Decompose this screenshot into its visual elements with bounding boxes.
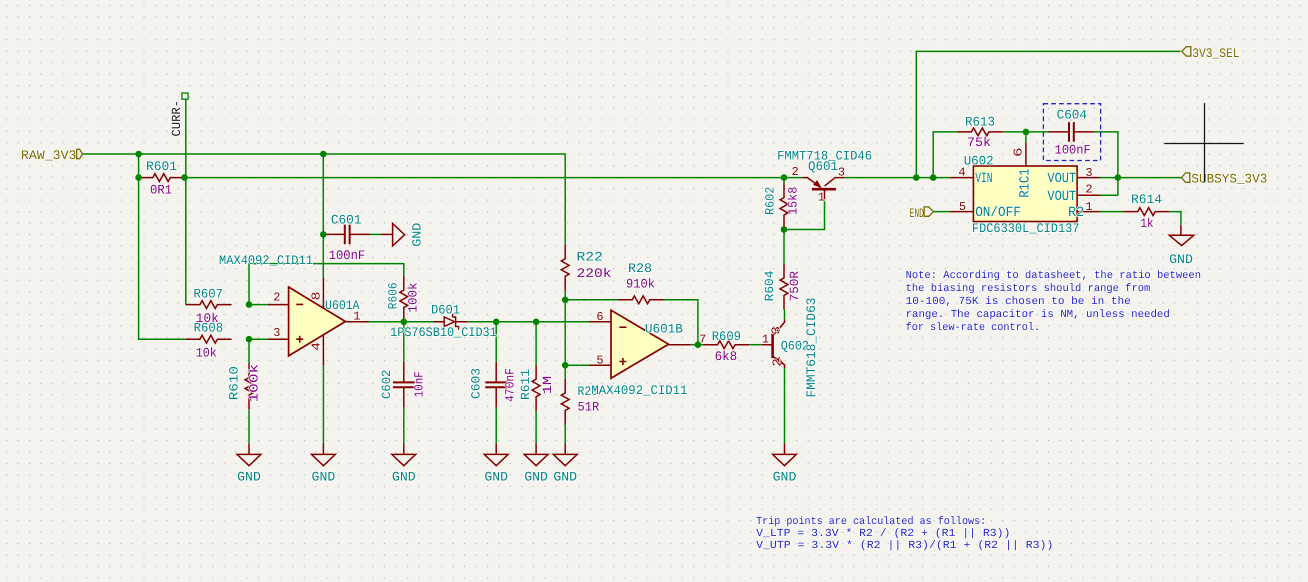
svg-text:V_LTP = 3.3V * R2 / (R2 + (R1: V_LTP = 3.3V * R2 / (R2 + (R1 || R3)): [756, 528, 1010, 540]
wire R611 bottom: [535, 411, 537, 443]
wire END to ON/OFF: [934, 211, 951, 213]
wire pin6 upper: [1025, 132, 1027, 143]
junction: [930, 174, 937, 181]
ground under R610: [248, 443, 250, 454]
svg-text:R611: R611: [519, 369, 533, 400]
wire pin3 link U602: [1100, 177, 1118, 179]
wire R602 stub: [783, 178, 785, 184]
svg-text:R614: R614: [1131, 192, 1162, 207]
wire diode to pin6: [466, 321, 589, 323]
wire R610 bottom: [248, 409, 250, 443]
wire feedback A to R606: [249, 264, 404, 305]
svg-text:R604: R604: [763, 271, 777, 302]
wire C603 top: [495, 322, 497, 362]
wire R614 to GND: [1169, 212, 1181, 225]
svg-text:V_UTP = 3.3V * (R2 || R3)/(R1: V_UTP = 3.3V * (R2 || R3)/(R1 + (R2 || R…: [756, 540, 1053, 552]
svg-text:5: 5: [596, 354, 603, 368]
svg-text:END: END: [910, 206, 925, 221]
svg-text:3: 3: [1085, 166, 1092, 180]
svg-text:10nF: 10nF: [413, 371, 427, 397]
transistor Q602: [771, 334, 774, 359]
svg-text:R28: R28: [628, 261, 652, 276]
diode D601: [433, 321, 467, 323]
wire left branch to R608: [139, 154, 186, 339]
resistor R609: [704, 341, 750, 349]
wire Q602 collector to R604: [784, 310, 786, 320]
svg-text:C602: C602: [380, 370, 394, 399]
svg-text:VOUT: VOUT: [1047, 189, 1076, 205]
wire R613 riser: [933, 132, 957, 178]
svg-text:0R1: 0R1: [150, 182, 172, 197]
resistor R601: [139, 174, 185, 182]
wire pin4 to GND: [322, 366, 324, 443]
svg-text:1PS76SB10_CID31: 1PS76SB10_CID31: [390, 325, 497, 340]
hierarchical label SUBSYS_3V3: [1181, 173, 1189, 182]
resistor R606: [400, 276, 408, 322]
junction: [562, 297, 569, 304]
svg-text:6k8: 6k8: [715, 349, 738, 364]
svg-text:10-100, 75K is chosen to be in: 10-100, 75K is chosen to be in the: [906, 296, 1131, 308]
svg-text:5: 5: [959, 200, 966, 214]
wire pin3 link: [249, 338, 268, 340]
svg-text:R22: R22: [577, 250, 603, 265]
svg-text:100k: 100k: [248, 364, 262, 403]
wire R604 to node: [783, 230, 785, 264]
svg-text:GND: GND: [410, 223, 424, 247]
wire C603 bottom: [495, 408, 497, 444]
wire C602 top: [403, 322, 405, 362]
ground under U601A pin4: [322, 443, 324, 454]
svg-text:GND: GND: [773, 469, 797, 484]
svg-text:100nF: 100nF: [329, 248, 366, 263]
ground under C602: [403, 443, 405, 454]
wire Q601 base link: [784, 200, 825, 230]
junction: [695, 341, 702, 348]
svg-text:SUBSYS_3V3: SUBSYS_3V3: [1191, 171, 1267, 186]
svg-text:Note: According to datasheet,: Note: According to datasheet, the ratio …: [906, 270, 1201, 282]
svg-text:GND: GND: [553, 469, 577, 484]
svg-text:1: 1: [818, 191, 825, 205]
wire R28 left: [565, 299, 618, 301]
wire R22 bottom to R29: [564, 291, 566, 379]
svg-text:100nF: 100nF: [1055, 143, 1091, 158]
junction: [533, 319, 540, 326]
svg-text:1M: 1M: [541, 376, 555, 395]
junction: [913, 174, 920, 181]
op-amp U601B: [611, 310, 669, 378]
resistor R607: [186, 301, 232, 309]
resistor R602: [780, 183, 788, 229]
svg-text:3: 3: [273, 326, 280, 340]
wire Q602 emitter to GND: [784, 368, 786, 443]
svg-text:C601: C601: [331, 213, 362, 228]
local label CURR- with unconnected-end square: [182, 93, 188, 99]
svg-text:750R: 750R: [788, 271, 802, 302]
wire collector rail to VIN: [844, 177, 950, 179]
ground under R29: [564, 443, 566, 454]
svg-text:220k: 220k: [577, 266, 612, 281]
ground right of C601: [381, 233, 393, 235]
capacitor C601: [324, 233, 370, 235]
junction: [320, 231, 327, 238]
svg-text:75k: 75k: [967, 135, 991, 150]
resistor R22: [561, 245, 569, 291]
capacitor C602: [403, 362, 405, 408]
ground under R614: [1180, 225, 1182, 236]
svg-text:Trip points are calculated as: Trip points are calculated as follows:: [756, 516, 986, 528]
svg-text:U601A: U601A: [325, 298, 360, 313]
junction: [181, 174, 188, 181]
graphic cross (no-connect marker): [1164, 103, 1243, 182]
svg-text:FMMT718_CID46: FMMT718_CID46: [777, 149, 872, 164]
svg-text:MAX4092_CID11: MAX4092_CID11: [591, 383, 687, 398]
junction: [781, 174, 788, 181]
ground under R611: [535, 443, 537, 454]
svg-text:8: 8: [310, 292, 324, 301]
svg-text:R602: R602: [764, 187, 778, 215]
wire SUBSYS out: [1118, 177, 1181, 179]
capacitor C603: [495, 362, 497, 408]
svg-text:GND: GND: [484, 469, 508, 484]
svg-text:R609: R609: [712, 329, 741, 344]
svg-text:for slew-rate control.: for slew-rate control.: [906, 322, 1041, 334]
svg-text:3V3_SEL: 3V3_SEL: [1192, 46, 1239, 61]
svg-text:MAX4092_CID11: MAX4092_CID11: [219, 253, 313, 268]
svg-text:R610: R610: [228, 366, 242, 400]
svg-text:R613: R613: [965, 115, 995, 130]
resistor R608: [186, 335, 232, 343]
svg-text:R1C1: R1C1: [1018, 168, 1034, 197]
svg-text:2: 2: [791, 165, 798, 179]
resistor R611: [532, 365, 540, 411]
svg-text:U602: U602: [964, 154, 994, 169]
capacitor C604: [1049, 131, 1095, 133]
svg-text:R601: R601: [146, 159, 177, 174]
wire RAW_3V3 bus top: [82, 154, 565, 245]
wire to C601 and pin8: [322, 154, 324, 278]
svg-text:R2: R2: [1068, 205, 1084, 221]
junction: [781, 226, 788, 233]
svg-text:D601: D601: [431, 303, 460, 318]
svg-text:6: 6: [1012, 147, 1026, 156]
junction: [246, 301, 253, 308]
junction: [1023, 129, 1030, 136]
wire C602 bottom: [403, 408, 405, 444]
svg-text:15k8: 15k8: [787, 187, 801, 215]
svg-text:GND: GND: [312, 469, 336, 484]
wire pin1 to R614: [1100, 211, 1124, 213]
svg-text:3: 3: [769, 326, 783, 335]
DNP dashed box around C604: [1043, 104, 1100, 161]
op-amp U601A: [289, 287, 346, 356]
svg-text:2: 2: [770, 358, 784, 367]
svg-text:range. The capacitor is NM, un: range. The capacitor is NM, unless neede…: [906, 309, 1170, 321]
resistor R28: [618, 296, 664, 304]
wire R610 top: [248, 339, 250, 363]
svg-text:51R: 51R: [578, 400, 600, 415]
wire CURR drop: [185, 99, 187, 304]
wire C601 to GND: [370, 233, 381, 235]
svg-text:2: 2: [273, 290, 280, 304]
resistor R610: [245, 364, 253, 410]
wire pin5 link: [565, 364, 588, 366]
wire pin2 link: [249, 304, 268, 306]
svg-text:6: 6: [596, 310, 603, 324]
svg-text:4: 4: [310, 342, 324, 351]
wire C604 right drop: [1094, 132, 1118, 195]
svg-text:GND: GND: [524, 469, 548, 484]
svg-text:100k: 100k: [406, 282, 420, 312]
wire 3V3_SEL: [916, 51, 1180, 177]
junction: [493, 319, 500, 326]
svg-text:2: 2: [1085, 183, 1092, 197]
svg-text:1: 1: [762, 333, 769, 347]
svg-text:VIN: VIN: [975, 171, 992, 187]
svg-text:VOUT: VOUT: [1047, 171, 1076, 187]
svg-text:R606: R606: [387, 282, 401, 309]
svg-text:GND: GND: [392, 469, 416, 484]
svg-text:FMMT618_CID63: FMMT618_CID63: [804, 298, 819, 398]
ground under C603: [495, 443, 497, 454]
svg-text:GND: GND: [237, 469, 261, 484]
svg-text:the biasing resistors should r: the biasing resistors should range from: [906, 283, 1151, 295]
svg-text:CURR-: CURR-: [170, 100, 184, 137]
wire R611 top: [535, 322, 537, 365]
wire main rail: [185, 177, 803, 179]
IC U602 FDC6330L body: [973, 166, 1077, 222]
ground under Q602: [784, 443, 786, 454]
transistor Q601: [812, 188, 836, 191]
resistor R29: [561, 379, 569, 425]
junction: [135, 174, 142, 181]
resistor R604: [780, 264, 788, 310]
svg-text:ON/OFF: ON/OFF: [975, 205, 1021, 221]
svg-text:C604: C604: [1057, 108, 1088, 123]
junction: [320, 151, 327, 158]
svg-text:R607: R607: [194, 287, 224, 302]
svg-text:3: 3: [838, 166, 845, 180]
wire opamp A output: [369, 321, 435, 323]
svg-text:GND: GND: [1169, 252, 1193, 267]
junction: [401, 319, 408, 326]
svg-text:910k: 910k: [626, 277, 655, 292]
svg-text:R608: R608: [194, 320, 224, 335]
svg-text:FDC6330L_CID137: FDC6330L_CID137: [972, 221, 1080, 236]
svg-text:1: 1: [1085, 200, 1092, 214]
resistor R613: [957, 128, 1003, 136]
svg-text:10k: 10k: [196, 346, 217, 361]
wire output B to R609: [691, 344, 704, 346]
junction: [135, 151, 142, 158]
svg-text:RAW_3V3: RAW_3V3: [21, 148, 77, 163]
wire pin2 link U602: [1100, 194, 1118, 196]
svg-text:1k: 1k: [1140, 216, 1154, 231]
wire R29 to GND: [564, 425, 566, 444]
svg-text:U601B: U601B: [645, 321, 683, 336]
junction: [246, 336, 253, 343]
wire R28 right down: [664, 300, 698, 345]
resistor R614: [1124, 208, 1170, 216]
hierarchical label 3V3_SEL: [1182, 47, 1191, 56]
junction: [562, 362, 569, 369]
svg-text:470nF: 470nF: [504, 368, 518, 402]
junction: [1115, 174, 1122, 181]
wire R613 to C604: [1003, 131, 1049, 133]
wire R609 to Q602: [749, 344, 762, 346]
svg-text:C603: C603: [470, 368, 484, 399]
